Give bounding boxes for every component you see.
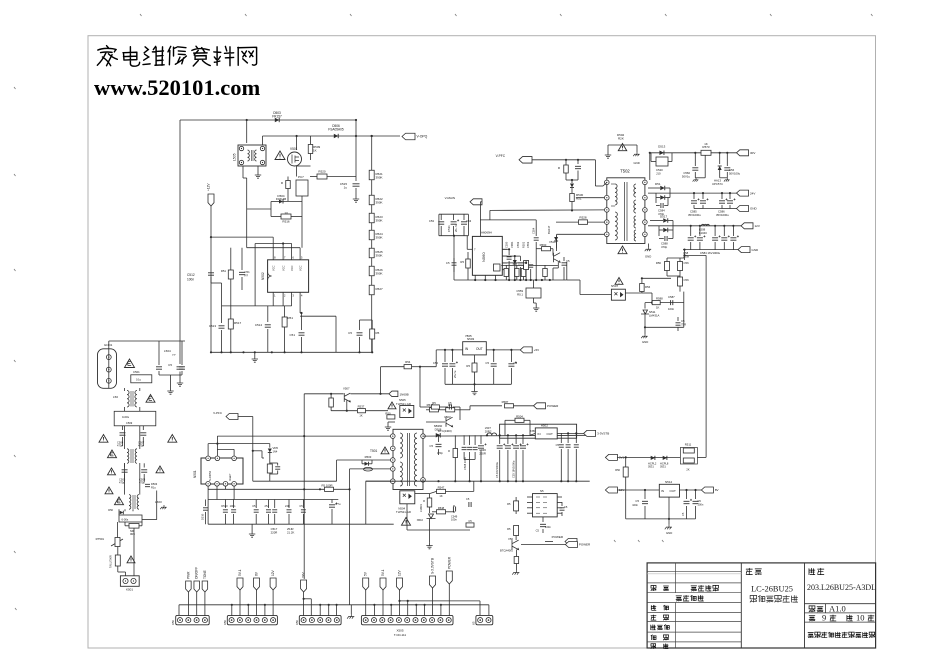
wire L505 left pin down [242, 166, 244, 178]
svg-text:R5: R5 [507, 527, 511, 531]
svg-text:100n: 100n [187, 278, 194, 282]
resistor R537 [358, 409, 366, 413]
ppp gnd bottom [350, 605, 352, 614]
R511 parallel pair [680, 448, 697, 465]
IC N502 bottom pins [272, 292, 274, 300]
wire gnd rail to T501 pin [422, 480, 424, 481]
title block left inner divider [675, 563, 677, 593]
svg-text:C51: C51 [289, 333, 295, 337]
resistor R528 [579, 220, 588, 225]
connector arrow 24V strip3 [301, 580, 307, 592]
svg-text:100n: 100n [698, 503, 704, 507]
connector POWER right [565, 542, 577, 548]
connector 3-3VSTB [584, 430, 596, 436]
border frame [88, 36, 876, 648]
wire vpfc lower right [238, 416, 253, 418]
svg-text:GND1: GND1 [104, 343, 113, 347]
resistor R vertical x455 [453, 449, 458, 458]
resistor R588 [652, 301, 660, 305]
diode VD510 [269, 444, 271, 448]
component column x520 [518, 263, 523, 265]
resistor R508 below 5v1 [623, 467, 628, 477]
cap pair 2 [678, 277, 683, 286]
svg-text:X505: X505 [396, 629, 403, 633]
wire from F12V down [210, 206, 212, 352]
30V row grounds [695, 177, 705, 179]
connector arrow ON/OFF [194, 581, 200, 592]
svg-text:R51: R51 [576, 197, 582, 201]
wire corner down [489, 210, 491, 220]
svg-text:R537: R537 [358, 405, 365, 409]
diode D517 [663, 218, 668, 223]
svg-text:POWER: POWER [447, 556, 451, 569]
caps right of H502 [560, 433, 562, 443]
12V gnd rail [683, 249, 738, 251]
wire N503 output [486, 349, 520, 351]
svg-text:470p: 470p [117, 444, 123, 448]
svg-text:IN: IN [661, 489, 664, 493]
svg-text:C531: C531 [447, 225, 451, 232]
svg-text:R503: R503 [365, 455, 372, 459]
svg-text:C5: C5 [485, 361, 489, 365]
svg-text:220R: 220R [271, 531, 278, 535]
diode D519 [663, 228, 668, 233]
N503 feed from aux node [419, 366, 421, 368]
svg-text:LM431: LM431 [419, 504, 423, 512]
svg-text:1N4: 1N4 [273, 449, 278, 453]
components under N501 [224, 500, 226, 509]
resistor R543 [430, 408, 439, 412]
left rail of N502 area [222, 305, 292, 307]
svg-text:100n: 100n [668, 307, 675, 311]
wire drain up to diode [556, 235, 558, 249]
svg-text:1N60B: 1N60B [400, 392, 409, 396]
wire N503 input [436, 349, 463, 351]
svg-text:GND: GND [642, 340, 648, 344]
connector 12V [741, 223, 753, 229]
ground L503 [160, 505, 166, 509]
N503 gnd rail [445, 383, 511, 385]
resistor R564 [684, 255, 686, 260]
resistor R518 [282, 317, 287, 327]
connector F12V [208, 194, 214, 206]
svg-text:20+?u: 20+?u [454, 224, 458, 232]
svg-text:GND: GND [645, 255, 651, 259]
resistor R560 gate [542, 247, 551, 251]
svg-text:0R8: 0R8 [130, 532, 135, 536]
svg-text:LM431A: LM431A [649, 314, 660, 318]
cap C566 vertical rail [683, 295, 685, 303]
IC N560 small tab [494, 264, 501, 271]
svg-text:VD5: VD5 [273, 446, 279, 450]
rail y436 to T501 pin1 [217, 435, 392, 437]
svg-text:9: 9 [822, 613, 826, 623]
tick marks near title block [614, 540, 616, 542]
connector 5V1 [605, 454, 617, 460]
svg-text:C512: C512 [187, 273, 195, 277]
regulator N503 box [463, 342, 487, 355]
svg-text:R504: R504 [516, 415, 523, 419]
connector POWER bottom left [565, 539, 577, 545]
N503 resistor below [472, 363, 477, 372]
left rail leg [221, 296, 223, 306]
box spark gap [114, 411, 156, 426]
svg-text:R5: R5 [376, 331, 380, 335]
cap trio C530 [439, 213, 469, 215]
svg-text:D503: D503 [151, 482, 158, 486]
svg-text:L505: L505 [233, 153, 237, 161]
output caps N503 [493, 349, 495, 351]
wire x380 down to V506 node [380, 367, 382, 394]
svg-text:LC-26BU25: LC-26BU25 [751, 585, 793, 594]
svg-text:VD51: VD51 [510, 241, 514, 248]
svg-text:1K: 1K [313, 149, 317, 153]
diode D506 small [120, 511, 124, 515]
svg-text:A1.0: A1.0 [829, 603, 846, 613]
wire long vertical x306 down to 24V arrow [303, 394, 305, 579]
svg-text:VCC: VCC [271, 265, 275, 271]
resistor R523 [369, 213, 374, 223]
svg-text:V507: V507 [343, 387, 350, 391]
rail y481 left part [253, 480, 337, 482]
resistor chain top connect [371, 135, 373, 137]
svg-text:R587: R587 [502, 400, 509, 404]
title block label 批准 [651, 644, 656, 649]
gnd n512 [665, 525, 672, 530]
strip X505 [361, 615, 453, 624]
connector POWER mid [534, 403, 546, 409]
svg-text:C513: C513 [209, 324, 217, 328]
svg-text:T501: T501 [370, 449, 377, 453]
svg-text:100n: 100n [451, 518, 457, 522]
cap C588 12V [658, 230, 660, 236]
svg-text:C5: C5 [698, 499, 702, 503]
diode D503 [275, 118, 279, 122]
cap C503 small [145, 484, 150, 486]
wire N502 pin5 net to gate loop [299, 248, 301, 251]
wire N501 pin top verticals [207, 444, 209, 456]
thermistor RT501 [111, 539, 123, 546]
svg-text:OUT: OUT [547, 432, 554, 436]
svg-text:R54: R54 [405, 360, 411, 364]
resistor R522 [369, 195, 374, 205]
svg-text:N510: N510 [417, 518, 424, 522]
svg-text:R2K: R2K [618, 137, 624, 141]
diode D513 [659, 151, 664, 156]
svg-text:4.7u: 4.7u [335, 502, 341, 506]
svg-text:25J: 25J [265, 504, 270, 508]
title block 版次 A1.0 row [805, 603, 876, 605]
svg-text:Drain7: Drain7 [229, 473, 232, 481]
caps C505 C508 [124, 463, 126, 467]
diode D507 [570, 184, 574, 188]
svg-text:50V1u: 50V1u [682, 175, 691, 179]
svg-text:5V-1: 5V-1 [381, 569, 385, 576]
svg-text:X5: X5 [472, 621, 476, 625]
IC N502 box [268, 260, 309, 293]
strip4 stub wires lower bus [373, 604, 375, 606]
gnd V504 [512, 570, 519, 575]
cap C536 [480, 435, 482, 444]
resistor R544 [446, 408, 455, 412]
svg-text:TLP521-GR: TLP521-GR [396, 510, 411, 514]
wire left vertical from top rail [179, 120, 181, 364]
warning triangle below T502 [618, 246, 627, 254]
wire T502 pin2 to drain [576, 197, 604, 199]
svg-text:C53: C53 [466, 219, 472, 223]
svg-text:1K: 1K [704, 142, 708, 146]
svg-text:IN: IN [538, 432, 541, 436]
resistor R566 vertical [625, 292, 642, 294]
cap on +12V line [208, 273, 214, 275]
title block page row 第9页 共10页 [805, 612, 876, 614]
cap C511 [241, 248, 243, 270]
caps x470 [469, 502, 471, 507]
diode D516 [660, 195, 665, 200]
svg-text:21.2K: 21.2K [287, 531, 294, 535]
svg-text:3-3VSTB: 3-3VSTB [597, 432, 609, 436]
connector arrow PWR [186, 581, 192, 592]
wire 30V output row [650, 152, 737, 154]
title block label 审核 [651, 615, 656, 620]
n512 caps [644, 489, 646, 491]
wire chain [371, 180, 373, 195]
connector arrow 5V-1 strip4 [380, 578, 386, 590]
transformer L503 [129, 495, 131, 510]
svg-text:C5: C5 [448, 401, 452, 405]
TL431 N511 [644, 303, 646, 309]
svg-text:C54: C54 [433, 361, 439, 365]
ecaps standby [499, 434, 501, 436]
diode D521 vertical [554, 237, 558, 241]
wire 24V output row [648, 192, 737, 194]
svg-text:OUT: OUT [476, 347, 483, 351]
svg-text:C53 16V1000u: C53 16V1000u [512, 460, 516, 478]
caps x464-475 [463, 435, 465, 445]
svg-text:1K: 1K [439, 494, 442, 498]
connector 12V lower [605, 487, 617, 493]
resistor R517 [228, 319, 233, 329]
component column x531 [528, 265, 533, 267]
svg-text:R5: R5 [432, 401, 436, 405]
svg-text:N501: N501 [193, 470, 197, 478]
svg-text:C56: C56 [684, 261, 690, 265]
cap C549 [453, 507, 455, 512]
resistor R527 [369, 285, 374, 295]
regulator H502 [535, 428, 557, 439]
wire T502 pin4 [586, 221, 604, 223]
X-cap C501 box [131, 375, 152, 383]
cluster to rail [269, 473, 271, 481]
title block label 工艺 [651, 635, 656, 640]
transformer L505 [238, 145, 266, 166]
ground L504 [167, 388, 173, 394]
wire 12v right [617, 489, 659, 491]
wire N502 pin4 down [299, 301, 301, 314]
svg-text:100n: 100n [632, 503, 638, 507]
svg-text:C554: C554 [532, 227, 536, 234]
pin5 elbow down [366, 480, 391, 482]
resistor R587 [505, 404, 514, 408]
wire down to L505 [246, 120, 248, 143]
cap C516 [301, 313, 303, 330]
connector arrow 5V-1 strip2 [237, 578, 243, 590]
svg-text:470p: 470p [437, 451, 443, 455]
cap C513 [221, 318, 223, 323]
svg-text:R520: R520 [318, 170, 326, 174]
mosfet V501 [288, 152, 302, 166]
transformer L502 [127, 449, 129, 464]
connector arrow 12V strip2 [270, 578, 276, 590]
IC N560 left pin 7 [467, 248, 472, 250]
svg-text:GND: GND [750, 207, 758, 211]
svg-text:X50: X50 [171, 620, 175, 625]
svg-text:C53: C53 [429, 219, 435, 223]
N501 bottom rail [208, 523, 394, 525]
wire aux supply row [381, 366, 404, 368]
svg-text:PC7: PC7 [298, 175, 304, 179]
capacitor C515 [353, 184, 360, 186]
svg-text:0.1u: 0.1u [136, 378, 142, 382]
connector arrow TONE [202, 581, 208, 592]
ground left of snubber [605, 152, 611, 158]
resistors left of N508 [514, 501, 519, 511]
svg-text:24V: 24V [750, 191, 755, 195]
resistor R510 left of IC [228, 270, 233, 279]
connector 1N60B [389, 391, 398, 397]
wire T502 pin5 [557, 233, 605, 235]
pin3 elbow R503 [336, 460, 338, 481]
standby gnd rail [366, 480, 590, 482]
svg-text:220R: 220R [479, 452, 486, 456]
title block row label 版次 [651, 586, 656, 591]
svg-text:C5: C5 [252, 504, 256, 508]
connector K501 [120, 576, 139, 587]
svg-text:C5: C5 [299, 504, 303, 508]
svg-text:GND: GND [666, 531, 672, 535]
svg-text:C5: C5 [168, 363, 172, 367]
12V filter caps [690, 225, 692, 227]
svg-text:R547: R547 [438, 486, 445, 490]
svg-text:R560: R560 [540, 243, 547, 247]
svg-text:N5: N5 [540, 489, 544, 493]
svg-text:OUT: OUT [670, 489, 677, 493]
resistor R509 vertical right of mosfet [310, 136, 312, 144]
diode D502 and cap at R503 [365, 462, 369, 466]
cap C548 left [452, 263, 457, 265]
cap C561 30V row [726, 152, 728, 154]
svg-text:R528: R528 [579, 216, 587, 220]
connector 30V [737, 150, 749, 156]
resistor R573 inline [701, 150, 711, 155]
warning triangle E1 [125, 359, 135, 368]
title block 编号 label [809, 568, 815, 574]
inductor L508 on 12V wire [702, 224, 710, 225]
svg-text:C5: C5 [681, 512, 685, 516]
sense resistor box [526, 288, 541, 298]
svg-text:A6069H: A6069H [481, 231, 492, 235]
wire +12V cap join [210, 277, 212, 283]
svg-text:C5: C5 [468, 519, 472, 523]
svg-text:R: R [448, 449, 450, 453]
svg-text:UPC574: UPC574 [712, 182, 723, 186]
svg-text:12V: 12V [755, 224, 760, 228]
svg-text:R548: R548 [438, 506, 445, 510]
svg-text:VCC: VCC [298, 265, 302, 271]
title block name 电路图电源板 [750, 595, 757, 602]
cap right of mosfet [563, 257, 565, 261]
svg-text:R1u: R1u [151, 485, 156, 489]
svg-text:0531: 0531 [648, 465, 654, 469]
title block label 更改单号 [691, 586, 697, 591]
connector V-NNNN [470, 199, 482, 205]
caps under N508 [542, 517, 544, 522]
svg-text:R56: R56 [656, 261, 662, 265]
chassis ground right of snubber [633, 152, 639, 156]
IC N502 top pins [272, 251, 274, 260]
node top-left junction [246, 119, 248, 121]
connector V-PFC top [519, 157, 532, 164]
svg-text:D508: D508 [435, 428, 442, 432]
fuse box [119, 515, 142, 522]
svg-text:10: 10 [856, 613, 865, 623]
resistor R521 [369, 170, 374, 180]
svg-text:1u: 1u [344, 186, 348, 190]
svg-text:6-00s: 6-00s [122, 517, 129, 521]
resistor R526 [369, 266, 374, 276]
cap right of N508 [561, 502, 563, 506]
svg-text:RT501: RT501 [96, 537, 105, 541]
ground left vertical [177, 380, 183, 386]
svg-text:J10: J10 [656, 172, 661, 176]
connector arrow 5V strip4 [363, 578, 369, 590]
wire mosfet source down [557, 262, 559, 268]
snubber above T502 [607, 145, 609, 152]
svg-text:POWER: POWER [552, 535, 564, 539]
svg-text:470p: 470p [661, 245, 668, 249]
title block outer [647, 563, 876, 648]
diode D508 [436, 433, 441, 438]
resistor R536 vertical [329, 398, 334, 407]
svg-text:FR414B: FR414B [276, 197, 286, 201]
bottom rail of N502 area [211, 351, 372, 353]
wire loop opto bottom [406, 504, 408, 530]
svg-text:390K: 390K [376, 254, 383, 258]
n512 gnd rail [626, 518, 696, 520]
caps C504 C507 [122, 426, 124, 430]
resistor NR horizontal [129, 524, 139, 529]
svg-text:BTC(4400): BTC(4400) [500, 549, 513, 553]
AC chain main wires [108, 344, 110, 388]
zener VD518 [719, 152, 721, 154]
resistor R519 right pair [370, 329, 375, 339]
cap C514 [267, 306, 269, 322]
svg-text:N502: N502 [261, 272, 265, 280]
svg-text:24R: 24R [285, 504, 290, 508]
svg-text:C553: C553 [526, 241, 530, 248]
wire n512 out [680, 489, 702, 491]
IC N501 box [201, 458, 243, 484]
svg-text:R50: R50 [385, 412, 391, 416]
title block label 标准化 [651, 625, 656, 630]
IC N560 bottom pins [474, 275, 476, 280]
svg-text:R551: R551 [522, 241, 526, 248]
node mosfet source [297, 165, 311, 167]
connector 24V GND [737, 206, 749, 212]
jog wire 24V to pin2 [303, 598, 305, 600]
svg-text:FR157: FR157 [272, 115, 282, 119]
feedback row wires [642, 292, 652, 294]
